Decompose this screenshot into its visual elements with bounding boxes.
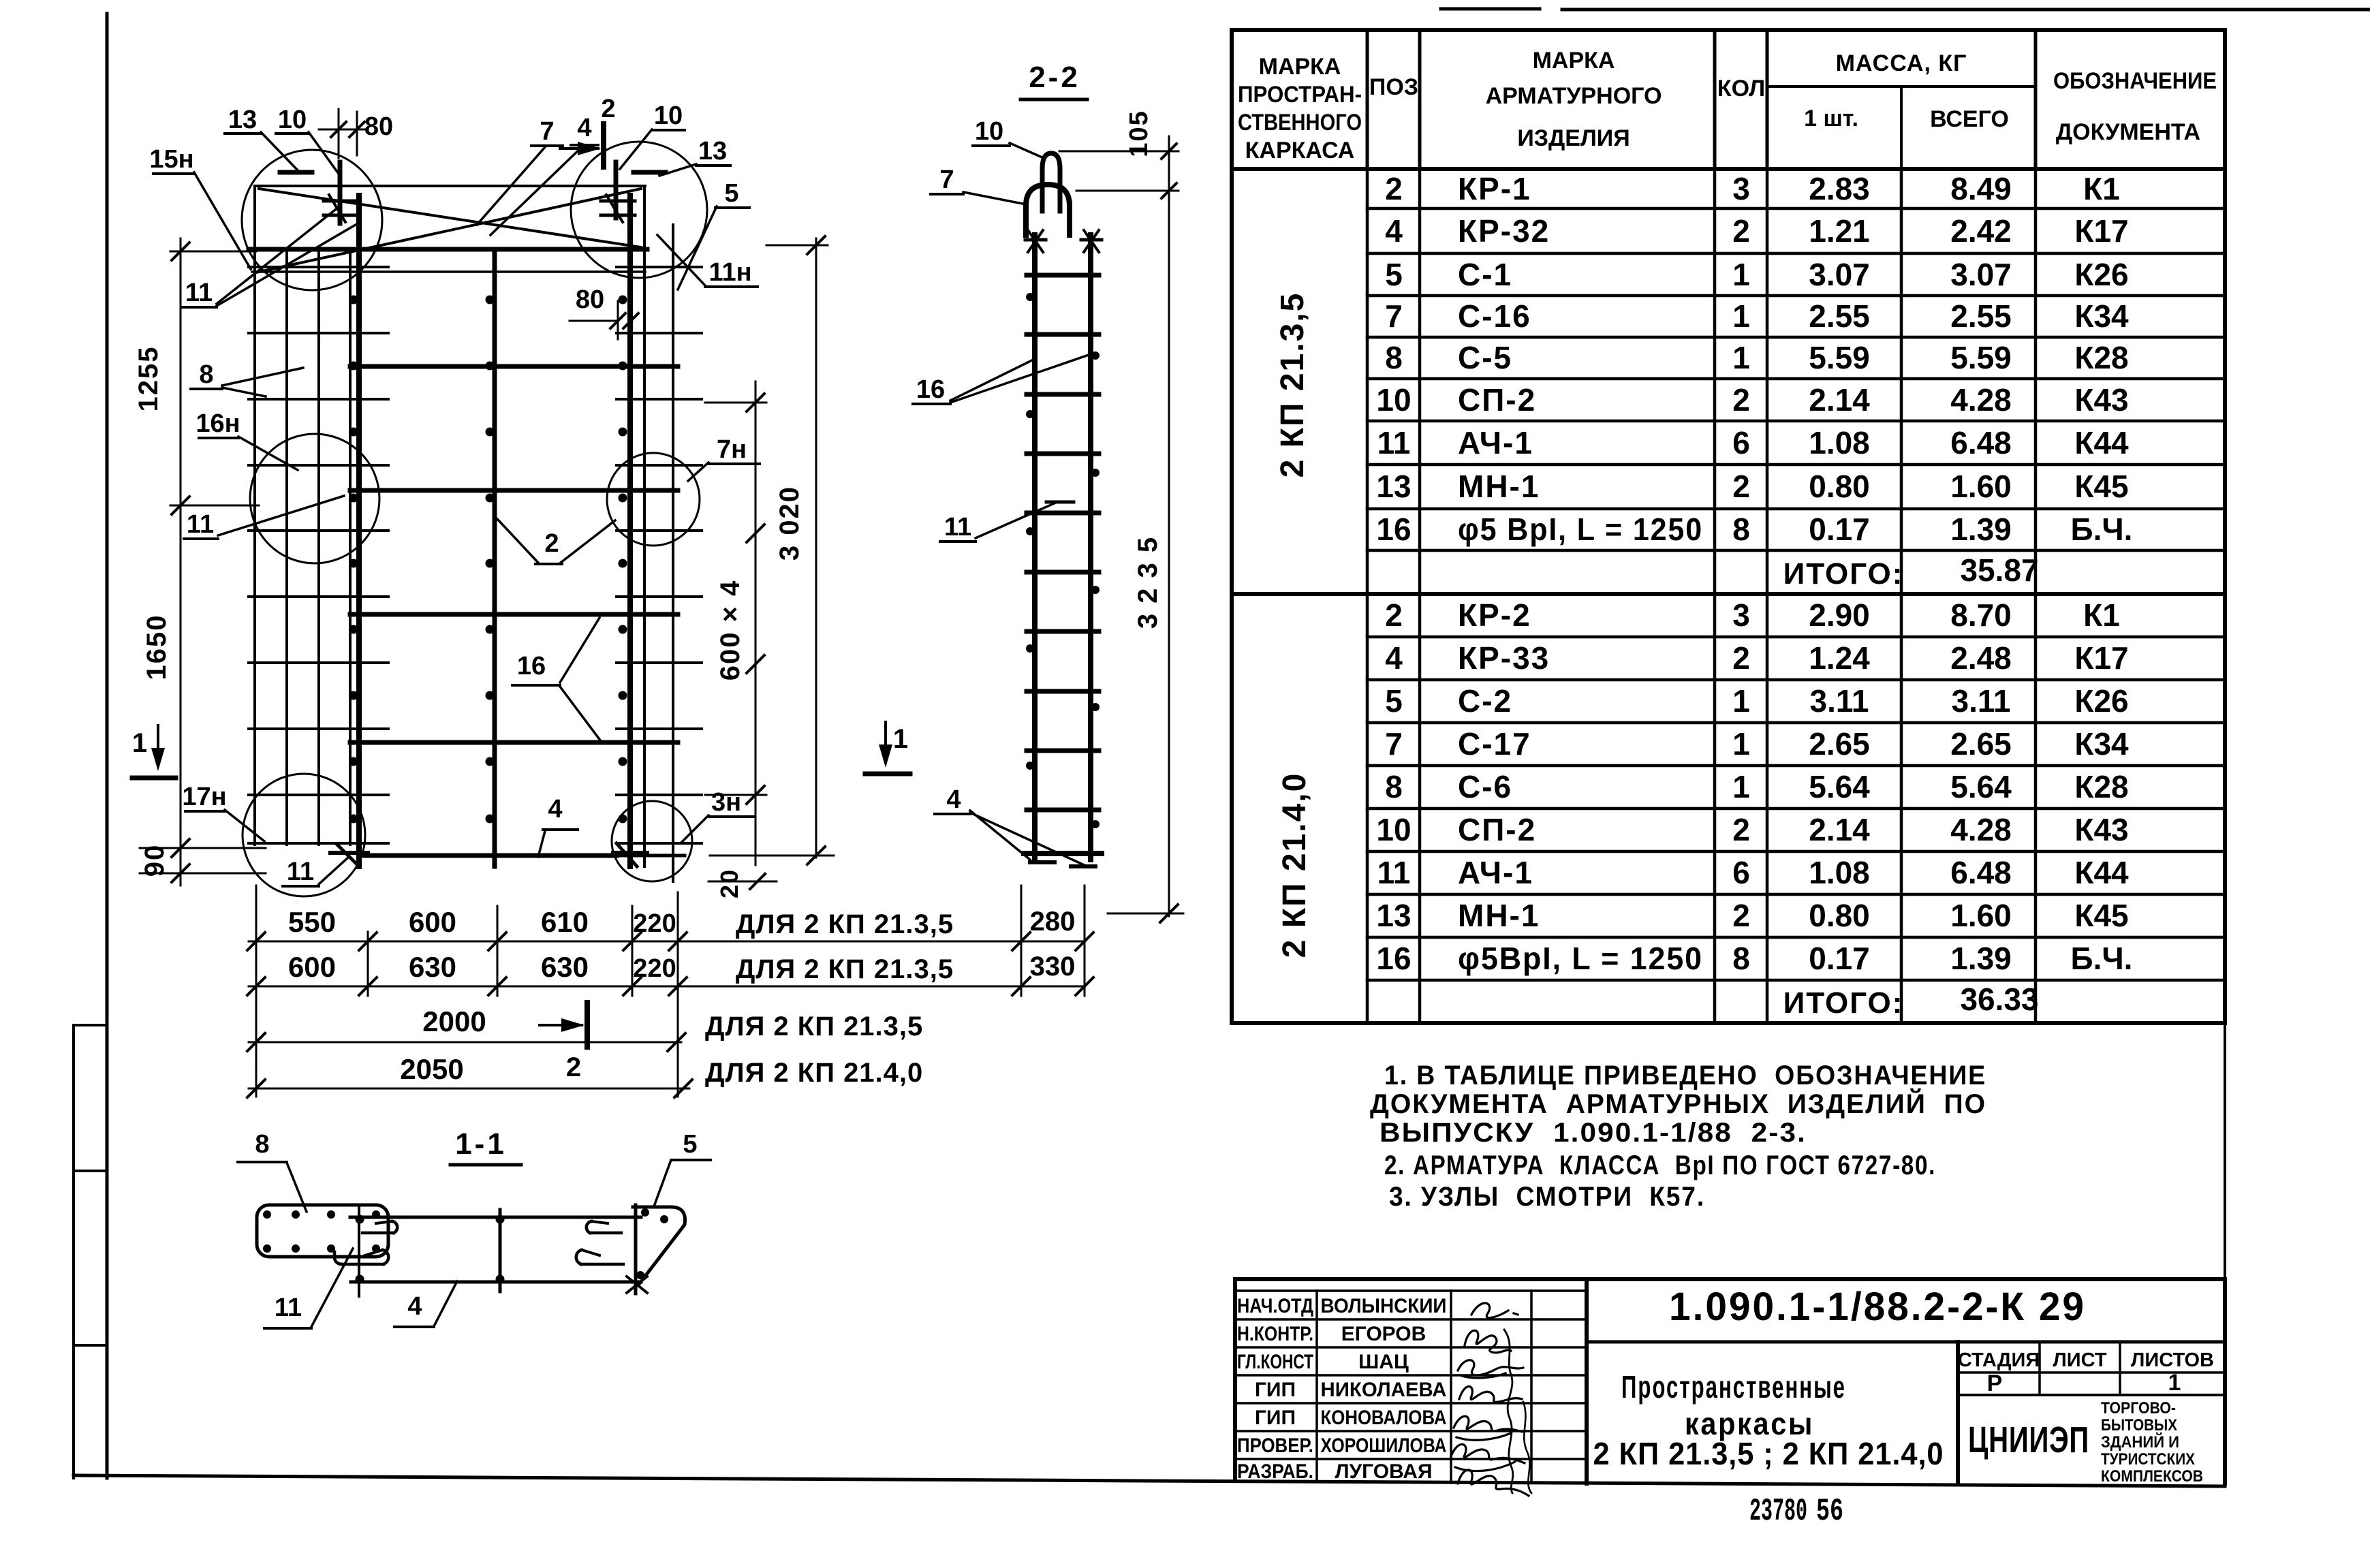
- svg-text:1.090.1-1/88.2-2-К 29: 1.090.1-1/88.2-2-К 29: [1669, 1285, 2086, 1329]
- svg-text:1.08: 1.08: [1809, 425, 1870, 460]
- svg-text:8: 8: [1385, 769, 1403, 804]
- svg-text:2-2: 2-2: [1029, 61, 1080, 94]
- svg-text:ЗДАНИЙ И: ЗДАНИЙ И: [2101, 1432, 2179, 1452]
- svg-text:ТУРИСТСКИХ: ТУРИСТСКИХ: [2101, 1450, 2195, 1469]
- svg-text:90: 90: [140, 844, 170, 877]
- svg-text:1.24: 1.24: [1809, 640, 1870, 676]
- svg-text:3.07: 3.07: [1809, 257, 1870, 292]
- svg-text:2050: 2050: [400, 1053, 463, 1085]
- svg-text:7: 7: [1385, 298, 1403, 334]
- svg-text:ПОЗ: ПОЗ: [1369, 74, 1418, 100]
- svg-text:8: 8: [1385, 340, 1403, 375]
- svg-text:550: 550: [288, 906, 336, 938]
- svg-text:2.48: 2.48: [1950, 640, 2012, 676]
- svg-text:К34: К34: [2074, 298, 2129, 334]
- svg-text:11: 11: [287, 858, 314, 886]
- svg-text:11: 11: [1377, 855, 1411, 890]
- svg-text:56: 56: [1816, 1494, 1843, 1529]
- svg-text:РАЗРАБ.: РАЗРАБ.: [1237, 1460, 1313, 1483]
- svg-text:280: 280: [1030, 907, 1076, 937]
- svg-text:ЕГОРОВ: ЕГОРОВ: [1341, 1323, 1426, 1345]
- svg-text:ДЛЯ 2 КП 21.3,5: ДЛЯ 2 КП 21.3,5: [736, 954, 954, 984]
- svg-text:ХОРОШИЛОВА: ХОРОШИЛОВА: [1321, 1434, 1447, 1457]
- svg-text:5.59: 5.59: [1809, 340, 1870, 375]
- svg-text:1: 1: [2168, 1370, 2181, 1396]
- svg-text:ЦНИИЭП: ЦНИИЭП: [1968, 1420, 2089, 1460]
- svg-text:1-1: 1-1: [455, 1127, 507, 1161]
- svg-text:10: 10: [1376, 382, 1411, 418]
- svg-text:К26: К26: [2074, 683, 2128, 719]
- svg-text:К28: К28: [2074, 769, 2128, 804]
- svg-text:1650: 1650: [142, 614, 172, 680]
- svg-text:К17: К17: [2074, 213, 2128, 249]
- svg-text:80: 80: [576, 285, 604, 314]
- svg-text:600: 600: [409, 906, 456, 938]
- svg-text:ПРОСТРАН-: ПРОСТРАН-: [1238, 82, 1362, 108]
- svg-text:ЛУГОВАЯ: ЛУГОВАЯ: [1335, 1460, 1432, 1483]
- svg-text:К1: К1: [2083, 597, 2120, 633]
- svg-text:3. УЗЛЫ СМОТРИ К57.: 3. УЗЛЫ СМОТРИ К57.: [1389, 1182, 1705, 1212]
- svg-text:2.55: 2.55: [1809, 298, 1870, 334]
- svg-text:16: 16: [517, 652, 546, 680]
- svg-text:0.80: 0.80: [1809, 898, 1870, 933]
- svg-text:7: 7: [939, 166, 954, 194]
- svg-text:НИКОЛАЕВА: НИКОЛАЕВА: [1321, 1379, 1447, 1401]
- svg-text:5: 5: [1385, 683, 1403, 719]
- svg-text:С-17: С-17: [1458, 726, 1531, 762]
- svg-text:К44: К44: [2074, 425, 2129, 460]
- svg-text:С-16: С-16: [1458, 298, 1531, 334]
- svg-text:2: 2: [544, 529, 559, 558]
- svg-text:φ5 ВрI, L = 1250: φ5 ВрI, L = 1250: [1458, 512, 1703, 547]
- svg-text:220: 220: [633, 954, 676, 983]
- svg-text:8: 8: [1732, 512, 1750, 547]
- svg-text:13: 13: [1376, 898, 1411, 933]
- svg-text:16: 16: [916, 375, 945, 404]
- svg-text:8.70: 8.70: [1950, 597, 2012, 633]
- svg-text:7: 7: [1385, 726, 1403, 762]
- svg-text:КР-1: КР-1: [1458, 171, 1531, 206]
- svg-text:4: 4: [407, 1292, 422, 1321]
- svg-text:1. В ТАБЛИЦЕ ПРИВЕДЕНО ОБОЗНА: 1. В ТАБЛИЦЕ ПРИВЕДЕНО ОБОЗНАЧЕНИЕ: [1384, 1061, 1986, 1091]
- svg-text:1: 1: [132, 728, 147, 758]
- svg-text:2: 2: [601, 95, 615, 123]
- svg-text:К45: К45: [2074, 469, 2128, 504]
- svg-text:5: 5: [683, 1130, 697, 1159]
- svg-text:2.65: 2.65: [1809, 726, 1870, 762]
- svg-text:ГИП: ГИП: [1255, 1407, 1296, 1429]
- svg-text:АЧ-1: АЧ-1: [1458, 855, 1533, 890]
- svg-text:ИЗДЕЛИЯ: ИЗДЕЛИЯ: [1517, 125, 1630, 151]
- svg-text:35.87: 35.87: [1960, 552, 2038, 588]
- svg-text:11: 11: [944, 513, 971, 542]
- svg-text:20: 20: [715, 868, 743, 898]
- svg-text:1 шт.: 1 шт.: [1804, 106, 1858, 131]
- svg-text:36.33: 36.33: [1960, 982, 2038, 1017]
- svg-text:2.83: 2.83: [1809, 171, 1870, 206]
- svg-text:13: 13: [228, 106, 257, 134]
- svg-text:МН-1: МН-1: [1458, 469, 1540, 504]
- svg-text:ИТОГО:: ИТОГО:: [1783, 557, 1904, 591]
- svg-text:ТОРГОВО-: ТОРГОВО-: [2101, 1399, 2176, 1417]
- svg-text:7: 7: [540, 117, 554, 146]
- svg-text:10: 10: [654, 101, 683, 130]
- svg-text:16: 16: [1376, 941, 1411, 976]
- svg-text:1: 1: [1732, 340, 1750, 375]
- svg-text:1: 1: [1732, 257, 1750, 292]
- svg-text:0.80: 0.80: [1809, 469, 1870, 504]
- svg-text:Н.КОНТР.: Н.КОНТР.: [1237, 1323, 1313, 1345]
- svg-text:СТАДИЯ: СТАДИЯ: [1958, 1349, 2040, 1371]
- svg-text:ДЛЯ 2 КП 21.3,5: ДЛЯ 2 КП 21.3,5: [736, 909, 954, 939]
- svg-text:ЛИСТ: ЛИСТ: [2053, 1349, 2106, 1371]
- svg-text:ГИП: ГИП: [1255, 1379, 1296, 1401]
- svg-text:3н: 3н: [711, 788, 741, 817]
- svg-text:0.17: 0.17: [1809, 941, 1870, 976]
- svg-text:11: 11: [185, 279, 213, 307]
- svg-text:ВСЕГО: ВСЕГО: [1930, 106, 2009, 132]
- svg-text:МАРКА: МАРКА: [1259, 54, 1341, 80]
- svg-text:220: 220: [633, 909, 676, 938]
- svg-text:11н: 11н: [708, 258, 751, 287]
- svg-text:К34: К34: [2074, 726, 2129, 762]
- svg-text:2.65: 2.65: [1950, 726, 2012, 762]
- svg-text:16: 16: [1376, 512, 1411, 547]
- svg-text:1255: 1255: [134, 346, 163, 412]
- svg-text:φ5ВрI, L = 1250: φ5ВрI, L = 1250: [1458, 941, 1703, 976]
- svg-text:ДЛЯ 2 КП 21.4,0: ДЛЯ 2 КП 21.4,0: [705, 1058, 923, 1088]
- svg-text:МАССА, КГ: МАССА, КГ: [1836, 50, 1967, 76]
- svg-text:1.39: 1.39: [1950, 941, 2012, 976]
- svg-text:1: 1: [893, 724, 908, 754]
- svg-text:1.39: 1.39: [1950, 512, 2012, 547]
- svg-text:АЧ-1: АЧ-1: [1458, 425, 1533, 460]
- svg-text:С-6: С-6: [1458, 769, 1512, 804]
- svg-text:6: 6: [1732, 425, 1750, 460]
- svg-text:10: 10: [278, 106, 307, 134]
- svg-text:15н: 15н: [149, 145, 193, 174]
- svg-text:2.14: 2.14: [1809, 812, 1870, 847]
- svg-text:5: 5: [1385, 257, 1403, 292]
- svg-text:23780: 23780: [1749, 1494, 1807, 1529]
- svg-text:1.08: 1.08: [1809, 855, 1870, 890]
- svg-text:2 КП 21.4,0: 2 КП 21.4,0: [1277, 772, 1313, 958]
- svg-text:6.48: 6.48: [1950, 425, 2012, 460]
- svg-text:11: 11: [187, 510, 214, 539]
- svg-text:2: 2: [1732, 898, 1750, 933]
- svg-text:КАРКАСА: КАРКАСА: [1245, 138, 1355, 163]
- svg-text:МАРКА: МАРКА: [1533, 48, 1615, 74]
- svg-text:СП-2: СП-2: [1458, 382, 1536, 418]
- svg-text:КР-32: КР-32: [1458, 213, 1550, 249]
- svg-text:2.42: 2.42: [1950, 213, 2012, 249]
- svg-text:1.21: 1.21: [1809, 213, 1870, 249]
- svg-text:13: 13: [698, 137, 727, 166]
- svg-text:Р: Р: [1987, 1370, 2003, 1396]
- svg-text:8: 8: [1732, 941, 1750, 976]
- svg-text:К17: К17: [2074, 640, 2128, 676]
- svg-text:К1: К1: [2083, 171, 2120, 206]
- svg-text:КОМПЛЕКСОВ: КОМПЛЕКСОВ: [2101, 1467, 2203, 1486]
- svg-text:3.11: 3.11: [1952, 683, 2011, 719]
- svg-text:8: 8: [199, 360, 213, 389]
- svg-text:К43: К43: [2074, 812, 2128, 847]
- svg-text:11: 11: [275, 1293, 302, 1322]
- svg-text:НАЧ.ОТД: НАЧ.ОТД: [1237, 1295, 1313, 1317]
- svg-text:2: 2: [1732, 213, 1750, 249]
- svg-text:330: 330: [1030, 952, 1076, 982]
- svg-text:2: 2: [1732, 382, 1750, 418]
- svg-text:БЫТОВЫХ: БЫТОВЫХ: [2101, 1416, 2177, 1434]
- svg-text:105: 105: [1125, 110, 1153, 157]
- svg-text:2.14: 2.14: [1809, 382, 1870, 418]
- svg-text:3.07: 3.07: [1950, 257, 2012, 292]
- svg-text:2 КП 21.3,5 ; 2 КП 21.4,0: 2 КП 21.3,5 ; 2 КП 21.4,0: [1593, 1436, 1944, 1471]
- svg-text:1.60: 1.60: [1950, 469, 2012, 504]
- svg-text:6.48: 6.48: [1950, 855, 2012, 890]
- svg-text:2. АРМАТУРА КЛАССА ВрI ПО ГО: 2. АРМАТУРА КЛАССА ВрI ПО ГОСТ 6727-80.: [1384, 1150, 1936, 1180]
- svg-text:ВОЛЫНСКИИ: ВОЛЫНСКИИ: [1321, 1295, 1447, 1317]
- svg-text:К44: К44: [2074, 855, 2129, 890]
- svg-text:С-1: С-1: [1458, 257, 1512, 292]
- svg-text:3: 3: [1732, 171, 1750, 206]
- svg-text:К26: К26: [2074, 257, 2128, 292]
- svg-text:13: 13: [1376, 469, 1411, 504]
- svg-text:ГЛ.КОНСТ: ГЛ.КОНСТ: [1237, 1351, 1313, 1373]
- svg-text:5.59: 5.59: [1950, 340, 2012, 375]
- svg-text:11: 11: [1377, 425, 1411, 460]
- svg-text:1: 1: [1732, 726, 1750, 762]
- svg-text:10: 10: [1376, 812, 1411, 847]
- svg-text:610: 610: [541, 906, 589, 938]
- svg-text:МН-1: МН-1: [1458, 898, 1540, 933]
- svg-text:ВЫПУСКУ 1.090.1-1/88 2-3.: ВЫПУСКУ 1.090.1-1/88 2-3.: [1379, 1118, 1807, 1148]
- svg-text:Пространственные: Пространственные: [1621, 1369, 1846, 1405]
- svg-text:СТВЕННОГО: СТВЕННОГО: [1238, 110, 1362, 136]
- svg-text:4.28: 4.28: [1950, 382, 2012, 418]
- svg-text:16н: 16н: [196, 409, 240, 438]
- svg-text:4: 4: [548, 795, 562, 824]
- svg-text:17н: 17н: [182, 783, 226, 811]
- svg-text:600: 600: [288, 951, 336, 983]
- svg-text:4.28: 4.28: [1950, 812, 2012, 847]
- svg-text:5.64: 5.64: [1809, 769, 1870, 804]
- svg-text:630: 630: [541, 951, 589, 983]
- svg-text:КР-33: КР-33: [1458, 640, 1550, 676]
- svg-text:1.60: 1.60: [1950, 898, 2012, 933]
- svg-text:К43: К43: [2074, 382, 2128, 418]
- svg-text:2.55: 2.55: [1950, 298, 2012, 334]
- svg-text:КР-2: КР-2: [1458, 597, 1531, 633]
- svg-text:80: 80: [364, 112, 393, 141]
- svg-text:3.11: 3.11: [1810, 683, 1869, 719]
- svg-text:КОНОВАЛОВА: КОНОВАЛОВА: [1321, 1407, 1447, 1429]
- svg-text:ДОКУМЕНТА: ДОКУМЕНТА: [2056, 119, 2200, 145]
- svg-text:3 020: 3 020: [775, 486, 805, 561]
- svg-text:3 2 3 5: 3 2 3 5: [1133, 536, 1163, 629]
- svg-text:К45: К45: [2074, 898, 2128, 933]
- svg-text:2: 2: [1732, 812, 1750, 847]
- svg-text:ДОКУМЕНТА АРМАТУРНЫХ ИЗДЕЛИЙ: ДОКУМЕНТА АРМАТУРНЫХ ИЗДЕЛИЙ ПО: [1370, 1088, 1986, 1119]
- svg-text:3: 3: [1732, 597, 1750, 633]
- svg-text:ДЛЯ 2 КП 21.3,5: ДЛЯ 2 КП 21.3,5: [705, 1012, 923, 1041]
- svg-text:5: 5: [724, 179, 738, 208]
- svg-text:7н: 7н: [717, 435, 747, 464]
- svg-text:2000: 2000: [422, 1005, 486, 1037]
- svg-text:10: 10: [975, 117, 1003, 146]
- svg-text:2: 2: [1732, 469, 1750, 504]
- svg-text:600 × 4: 600 × 4: [715, 580, 745, 681]
- svg-text:ШАЦ: ШАЦ: [1358, 1351, 1409, 1373]
- svg-text:2: 2: [1732, 640, 1750, 676]
- svg-text:Б.Ч.: Б.Ч.: [2071, 941, 2133, 976]
- svg-text:4: 4: [577, 114, 591, 142]
- svg-text:С-2: С-2: [1458, 683, 1512, 719]
- svg-text:ПРОВЕР.: ПРОВЕР.: [1237, 1434, 1313, 1457]
- svg-text:5.64: 5.64: [1950, 769, 2012, 804]
- svg-text:Б.Ч.: Б.Ч.: [2071, 512, 2133, 547]
- svg-text:СП-2: СП-2: [1458, 812, 1536, 847]
- svg-text:2: 2: [1385, 597, 1403, 633]
- svg-text:АРМАТУРНОГО: АРМАТУРНОГО: [1486, 83, 1662, 109]
- svg-text:ИТОГО:: ИТОГО:: [1783, 986, 1904, 1020]
- svg-text:2.90: 2.90: [1809, 597, 1870, 633]
- svg-text:4: 4: [1385, 213, 1403, 249]
- svg-text:ОБОЗНАЧЕНИЕ: ОБОЗНАЧЕНИЕ: [2053, 68, 2217, 94]
- svg-text:С-5: С-5: [1458, 340, 1512, 375]
- svg-text:К28: К28: [2074, 340, 2128, 375]
- svg-text:630: 630: [409, 951, 456, 983]
- svg-text:0.17: 0.17: [1809, 512, 1870, 547]
- svg-text:ЛИСТОВ: ЛИСТОВ: [2131, 1349, 2214, 1371]
- svg-text:2 КП 21.3,5: 2 КП 21.3,5: [1275, 292, 1311, 478]
- svg-text:2: 2: [566, 1052, 581, 1082]
- svg-text:1: 1: [1732, 683, 1750, 719]
- svg-text:1: 1: [1732, 769, 1750, 804]
- svg-text:4: 4: [946, 785, 961, 814]
- svg-text:КОЛ: КОЛ: [1717, 76, 1765, 101]
- svg-text:4: 4: [1385, 640, 1403, 676]
- svg-text:8: 8: [255, 1130, 269, 1159]
- svg-text:6: 6: [1732, 855, 1750, 890]
- svg-text:1: 1: [1732, 298, 1750, 334]
- svg-text:2: 2: [1385, 171, 1403, 206]
- svg-text:8.49: 8.49: [1950, 171, 2012, 206]
